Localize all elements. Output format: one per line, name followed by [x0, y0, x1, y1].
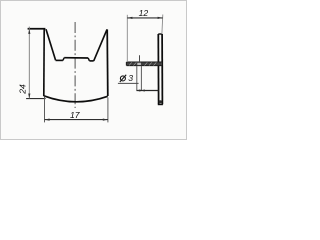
plate top edge [158, 33, 162, 35]
svg-text:3: 3 [128, 73, 133, 83]
step down [88, 58, 89, 61]
plate bottom edge [158, 103, 163, 105]
hole at plate bottom [159, 100, 162, 103]
dimension 24 top arrow [28, 29, 30, 34]
outline top edge [28, 28, 46, 30]
groove floor left [56, 59, 63, 61]
diameter 3 leader underline [118, 82, 139, 84]
border frame [1, 1, 187, 140]
outline left inner vertical [43, 29, 45, 96]
groove floor right [89, 60, 93, 62]
svg-text:24: 24 [18, 84, 28, 95]
dimension 24 bottom arrow [28, 94, 30, 99]
web section hatch fill [127, 62, 162, 65]
diameter 3 extension line left [136, 66, 138, 91]
dimension 17 left arrow [45, 119, 50, 121]
web left end edge [126, 62, 128, 65]
extension line 17 right [107, 98, 109, 123]
plate left vertical [157, 34, 159, 104]
svg-text:17: 17 [70, 110, 81, 120]
plate right vertical [161, 34, 163, 104]
dimension 12 extension right [161, 15, 164, 35]
step up [63, 58, 64, 61]
diameter 3 extension line right [140, 66, 142, 91]
paper background [0, 0, 187, 140]
hatch speckles [129, 62, 156, 65]
dimension 24 line [28, 27, 30, 99]
bottom arc [44, 96, 108, 102]
diameter symbol [120, 75, 126, 82]
dimension 17 line [45, 119, 108, 121]
svg-text:12: 12 [139, 8, 149, 18]
dimension 12 extension left [126, 15, 128, 62]
center platform [64, 57, 88, 59]
outline left groove diagonal [46, 29, 56, 60]
centerline (dash-dot) [74, 22, 76, 108]
web (sectioned) top edge [127, 61, 163, 63]
diameter 3 dimension line with arrows [137, 90, 159, 92]
dimension 12 left arrow [127, 17, 132, 19]
hole gap in web [137, 63, 141, 65]
dimension 12 line [127, 17, 162, 19]
dimension 17 right arrow [103, 119, 108, 121]
dimension 12 right arrow [158, 17, 163, 19]
extension line 17 left [44, 97, 46, 123]
outline right vertical [106, 29, 109, 96]
right groove diagonal [94, 29, 107, 61]
hole centerline above web [139, 55, 141, 62]
web bottom edge [127, 65, 163, 67]
bottom-left edge tick [26, 98, 45, 100]
